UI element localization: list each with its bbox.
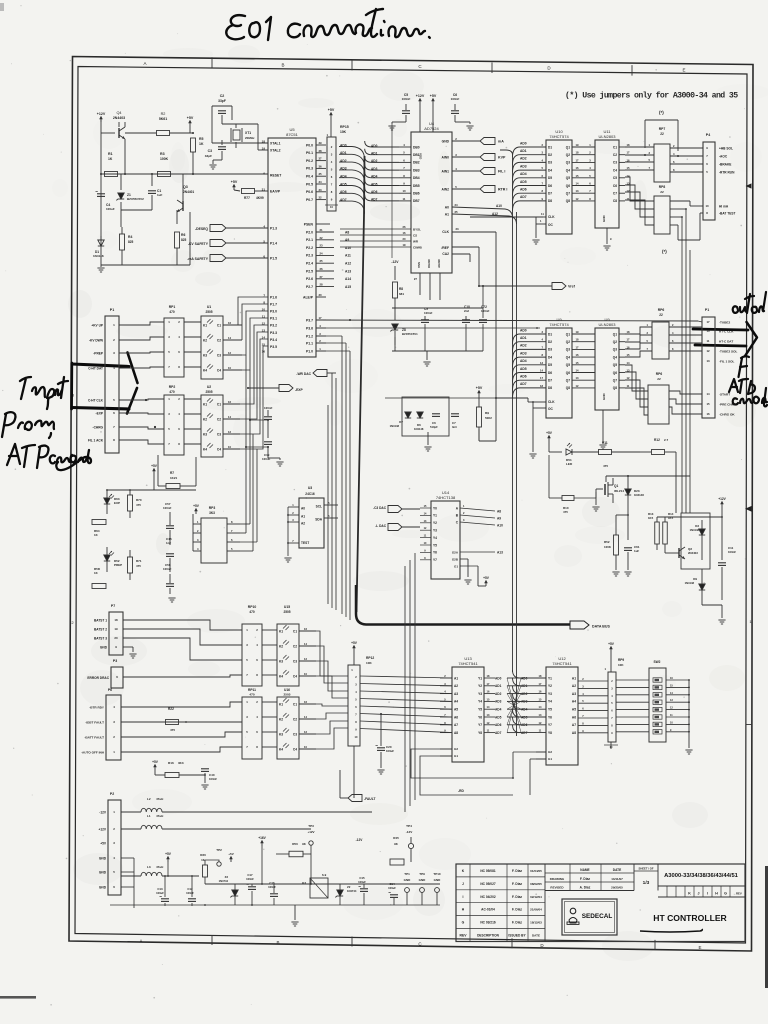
sheet outer border frame (69, 57, 753, 952)
svg-text:A7: A7 (572, 723, 576, 727)
svg-text:-START: -START (719, 392, 730, 396)
svg-text:RP11: RP11 (248, 688, 256, 692)
signal flag -KV SAFETY (210, 240, 226, 247)
svg-text:-L DAC: -L DAC (375, 524, 386, 528)
svg-text:47uH: 47uH (156, 865, 163, 869)
ground oscillator (213, 159, 222, 161)
svg-text:K1: K1 (203, 323, 207, 327)
svg-text:P3.7: P3.7 (306, 318, 313, 322)
title block outer (456, 864, 745, 942)
svg-text:P2.4: P2.4 (306, 262, 313, 266)
bus2 entry arcs into U12 (513, 670, 547, 678)
svg-text:+5V: +5V (151, 464, 158, 468)
svg-text:22: 22 (659, 313, 663, 317)
svg-text:R11: R11 (602, 441, 608, 445)
title block drawing table (545, 872, 634, 874)
svg-text:A12: A12 (492, 212, 498, 216)
svg-text:BZX55C5V2: BZX55C5V2 (127, 197, 144, 201)
svg-text:-BRAKE: -BRAKE (719, 162, 731, 166)
svg-text:100nF: 100nF (163, 567, 172, 571)
svg-text:VDD: VDD (419, 153, 423, 160)
op-amp U4 AD7524 DAC (411, 132, 452, 273)
scan artifact bottom left dash (0, 996, 36, 999)
svg-text:17: 17 (576, 345, 579, 349)
diode D52 PREP LED (104, 555, 110, 561)
svg-text:100uF: 100uF (388, 886, 396, 890)
svg-text:1N4148: 1N4148 (690, 528, 700, 532)
svg-text:+5V: +5V (100, 841, 107, 845)
svg-text:P2.7: P2.7 (306, 285, 313, 289)
svg-text:Q6: Q6 (566, 371, 570, 375)
svg-text:11: 11 (403, 197, 406, 201)
svg-text:A: A (139, 938, 142, 943)
svg-text:C17: C17 (247, 873, 253, 877)
signal flag KVP (480, 154, 495, 161)
svg-text:P2: P2 (110, 792, 114, 796)
svg-text:C1: C1 (613, 145, 617, 149)
ground C40 (201, 784, 208, 786)
svg-text:A1: A1 (301, 514, 305, 518)
svg-text:12: 12 (576, 384, 579, 388)
svg-text:74HCT574: 74HCT574 (549, 134, 569, 139)
svg-text:-CHRG OK: -CHRG OK (719, 412, 735, 416)
diode D23 1N4148 (625, 489, 631, 495)
capacitor C20 100uF (377, 747, 385, 749)
wires RD loop under U13 (411, 749, 513, 778)
wire long verticals center-low (404, 566, 406, 812)
wire U10 CLK horizontal (470, 216, 543, 218)
svg-text:08/02/05: 08/02/05 (530, 882, 542, 886)
svg-text:+16V: +16V (258, 836, 266, 840)
wire +12V rail vertical (100, 118, 102, 265)
svg-text:+12V: +12V (718, 497, 726, 501)
svg-text:+5V: +5V (228, 852, 233, 856)
svg-text:DB0: DB0 (413, 145, 420, 149)
svg-text:G: G (724, 891, 727, 895)
svg-text:A: A (143, 61, 146, 66)
svg-text:AD4: AD4 (371, 175, 378, 179)
svg-text:21/06/04: 21/06/04 (530, 908, 542, 912)
svg-text:P0.3: P0.3 (306, 167, 313, 171)
svg-text:C6: C6 (432, 421, 436, 425)
svg-text:R4: R4 (128, 235, 132, 239)
svg-text:Y3: Y3 (433, 529, 437, 533)
component box Q2 D3 (681, 513, 710, 569)
svg-text:A8: A8 (572, 731, 576, 735)
svg-text:D3: D3 (548, 348, 552, 352)
svg-text:EA/VP: EA/VP (270, 189, 281, 193)
svg-text:AD4: AD4 (520, 359, 527, 363)
svg-text:74HCT138: 74HCT138 (436, 495, 456, 500)
svg-text:D7: D7 (548, 379, 552, 383)
wire P3.6 to latch area (316, 327, 540, 329)
svg-text:681: 681 (399, 292, 404, 296)
svg-text:PSEN: PSEN (304, 222, 314, 226)
svg-text:D5: D5 (548, 176, 552, 180)
bus2 entry arcs into U9 (513, 334, 547, 344)
svg-text:P1.2: P1.2 (306, 334, 313, 338)
svg-text:74HCT574: 74HCT574 (549, 322, 569, 327)
svg-text:15: 15 (576, 174, 579, 178)
svg-text:A2: A2 (572, 684, 576, 688)
resistor pack RP12 10K (353, 647, 355, 651)
svg-text:TP10: TP10 (433, 872, 441, 876)
svg-text:-AOC: -AOC (719, 154, 728, 158)
svg-text:26: 26 (319, 267, 323, 271)
svg-text:13: 13 (540, 361, 543, 365)
svg-text:+5V: +5V (187, 116, 194, 120)
svg-text:17: 17 (627, 151, 630, 155)
svg-text:U5: U5 (289, 127, 295, 132)
svg-text:P3.4: P3.4 (270, 338, 277, 342)
svg-text:(*) Use jumpers only for A3000: (*) Use jumpers only for A3000-34 and 35 (565, 91, 738, 101)
svg-text:100nF: 100nF (728, 550, 736, 554)
svg-text:50K2: 50K2 (485, 416, 492, 420)
svg-text:DB3: DB3 (413, 168, 420, 172)
op-amp U12 74HCT541 buffer (546, 667, 578, 765)
svg-text:P1.1: P1.1 (306, 341, 313, 345)
svg-text:R1: R1 (108, 152, 113, 156)
svg-text:18: 18 (627, 143, 630, 147)
diode D7 1N4148 (405, 412, 411, 418)
svg-text:C3: C3 (208, 149, 212, 153)
ground R52 C61 (612, 571, 619, 573)
svg-text:3K3: 3K3 (209, 511, 215, 515)
svg-text:13: 13 (576, 189, 579, 193)
svg-text:22: 22 (660, 190, 664, 194)
svg-text:U2: U2 (207, 385, 211, 389)
svg-text:NAME: NAME (580, 868, 589, 872)
wire vertical interconnect mid page (341, 336, 343, 614)
svg-text:AD0: AD0 (371, 144, 378, 148)
svg-text:AD5: AD5 (495, 715, 502, 719)
svg-text:TP1: TP1 (404, 872, 410, 876)
svg-text:1N4744: 1N4744 (347, 889, 357, 893)
op-amp U9 74HCT574 latch (546, 328, 572, 418)
border row marker arrow right (746, 183, 752, 188)
svg-text:3n3: 3n3 (452, 425, 457, 429)
svg-text:470: 470 (249, 693, 254, 697)
svg-text:Y3: Y3 (548, 692, 552, 696)
svg-text:RP9: RP9 (618, 658, 624, 662)
svg-text:+12V: +12V (98, 827, 106, 831)
svg-text:475: 475 (603, 464, 608, 468)
svg-text:AD0: AD0 (520, 328, 527, 332)
svg-text:U10: U10 (555, 129, 563, 134)
svg-text:KVP: KVP (498, 156, 506, 160)
svg-text:-12V: -12V (391, 260, 399, 264)
wires U4 power (419, 104, 421, 132)
svg-text:AD7524: AD7524 (424, 126, 439, 131)
svg-text:16: 16 (228, 321, 231, 325)
svg-text:15: 15 (576, 361, 579, 365)
svg-text:P3.0: P3.0 (270, 310, 277, 314)
svg-text:DATE: DATE (613, 868, 621, 872)
svg-text:33: 33 (318, 188, 322, 192)
svg-text:C-HT CLK: C-HT CLK (88, 398, 104, 402)
svg-text:AD3: AD3 (520, 351, 527, 355)
svg-text:DATA BUS: DATA BUS (592, 625, 611, 629)
svg-text:BZX55C5V1: BZX55C5V1 (402, 332, 418, 336)
svg-text:H: H (715, 891, 718, 895)
svg-text:BATST 1: BATST 1 (94, 618, 107, 622)
svg-text:RP10: RP10 (248, 605, 257, 609)
wires SW2 to ground rail (666, 679, 689, 681)
power +12V Q2 area (721, 503, 723, 507)
svg-text:Y6: Y6 (433, 551, 437, 555)
svg-text:U3: U3 (308, 486, 312, 490)
svg-text:+5V: +5V (152, 760, 159, 764)
op-amp U13 74HCT541 buffer (452, 667, 484, 762)
svg-text:K4: K4 (279, 674, 283, 678)
svg-text:Y1: Y1 (433, 514, 437, 518)
svg-text:12: 12 (576, 197, 579, 201)
wire rail y884 (205, 883, 440, 885)
diode network box (402, 397, 449, 436)
svg-text:17: 17 (540, 376, 543, 380)
svg-text:AIN1: AIN1 (441, 169, 449, 173)
ground SW2 (685, 749, 692, 751)
svg-text:1N4148: 1N4148 (634, 493, 644, 497)
svg-text:A10: A10 (345, 246, 351, 250)
svg-text:R8: R8 (399, 287, 403, 291)
svg-text:J: J (698, 891, 700, 895)
svg-text:Q4: Q4 (116, 111, 121, 115)
svg-text:AGND: AGND (437, 258, 441, 268)
wires U9b lower to RP6b (625, 365, 648, 391)
ground caps U4 (392, 121, 406, 123)
svg-text:-FIL 1 SOL: -FIL 1 SOL (719, 359, 735, 363)
svg-text:C5: C5 (613, 176, 617, 180)
svg-text:D5: D5 (548, 363, 552, 367)
svg-text:Y3: Y3 (478, 692, 482, 696)
svg-text:39: 39 (318, 141, 322, 145)
svg-text:C15: C15 (359, 876, 365, 880)
wires U9b to RP6 (625, 327, 652, 334)
svg-text:IRLZ14: IRLZ14 (614, 489, 624, 493)
svg-text:38: 38 (318, 149, 322, 153)
resistor R16 3K3 (154, 766, 156, 770)
svg-text:34: 34 (318, 180, 322, 184)
svg-text:14: 14 (228, 336, 231, 340)
wire long verticals right side (681, 217, 683, 513)
diode D1 1N4148 (98, 240, 104, 246)
svg-text:NC 04/202: NC 04/202 (480, 895, 495, 899)
power +5V L3 node (167, 858, 169, 862)
svg-text:-mA SAFETY: -mA SAFETY (187, 257, 209, 261)
svg-text:U1: U1 (207, 305, 211, 309)
svg-text:CLK: CLK (548, 215, 555, 219)
svg-text:DATE: DATE (532, 934, 540, 938)
svg-text:1N4148: 1N4148 (93, 254, 104, 258)
svg-text:HI mA: HI mA (719, 204, 729, 208)
svg-text:+5V: +5V (351, 641, 358, 645)
svg-text:Y8: Y8 (548, 731, 552, 735)
svg-text:Q5: Q5 (566, 363, 570, 367)
svg-text:BATST 3: BATST 3 (94, 636, 107, 640)
svg-text:VSS: VSS (417, 262, 421, 268)
resistor R64 1K (92, 520, 106, 525)
svg-text:R45: R45 (393, 836, 399, 840)
svg-text:Q1: Q1 (613, 332, 617, 336)
handwritten note Input from ATP console (2, 377, 91, 470)
svg-text:Q8: Q8 (613, 386, 617, 390)
svg-text:16: 16 (262, 350, 266, 354)
op-amp U14 74HCT138 decoder (431, 501, 460, 579)
svg-text:U16: U16 (284, 688, 290, 692)
svg-text:A11: A11 (345, 254, 351, 258)
svg-text:SCL: SCL (316, 504, 322, 508)
svg-text:GND: GND (100, 645, 108, 649)
svg-text:33pF: 33pF (205, 154, 212, 158)
svg-text:Y2: Y2 (478, 684, 482, 688)
signal flag Vref (552, 283, 566, 290)
svg-text:P0.0: P0.0 (306, 143, 313, 147)
svg-text:GND: GND (419, 878, 427, 882)
zener Z8 BZX55C5V1 (392, 324, 398, 330)
svg-text:Y7: Y7 (433, 558, 437, 562)
svg-text:-AUTO OFF INH: -AUTO OFF INH (81, 750, 105, 754)
svg-text:C8: C8 (613, 199, 617, 203)
svg-text:XTAL1: XTAL1 (270, 141, 281, 145)
svg-text:Q4: Q4 (613, 355, 617, 359)
svg-text:17: 17 (318, 316, 322, 320)
svg-text:R5: R5 (199, 137, 204, 141)
svg-text:P3.2: P3.2 (270, 324, 277, 328)
svg-text:-PRE CHRG: -PRE CHRG (719, 402, 737, 406)
title block sedecal logo (562, 899, 617, 935)
svg-text:16: 16 (304, 700, 307, 704)
svg-text:10: 10 (705, 204, 709, 208)
svg-text:Y7: Y7 (548, 723, 552, 727)
svg-text:2.7: 2.7 (664, 438, 669, 442)
svg-text:P0.6: P0.6 (306, 190, 313, 194)
svg-text:A9: A9 (497, 517, 501, 521)
svg-text:Q2: Q2 (566, 340, 570, 344)
svg-text:P0.1: P0.1 (306, 151, 313, 155)
svg-text:16: 16 (228, 400, 231, 404)
svg-text:AD6: AD6 (520, 375, 527, 379)
svg-text:SHEET / OF: SHEET / OF (639, 867, 654, 871)
wires U11 to RP7 (625, 146, 654, 148)
svg-text:P7: P7 (111, 604, 115, 608)
svg-text:F. Diaz: F. Diaz (512, 869, 522, 873)
svg-text:A2: A2 (454, 684, 458, 688)
svg-text:P1.4: P1.4 (270, 241, 277, 245)
svg-text:K2: K2 (203, 338, 207, 342)
svg-text:2505: 2505 (205, 390, 212, 394)
svg-text:16: 16 (576, 166, 579, 170)
svg-text:14: 14 (627, 361, 630, 365)
resistor R9 50K2 (478, 392, 480, 396)
power +5V U4 (432, 100, 434, 104)
svg-text:EXP: EXP (114, 501, 120, 505)
svg-text:17: 17 (627, 338, 630, 342)
svg-text:C7: C7 (452, 421, 456, 425)
power +5V near R5 (189, 122, 191, 126)
svg-text:K3: K3 (279, 732, 283, 736)
svg-text:-TUBE2: -TUBE2 (719, 320, 730, 324)
resistor R71 475 (128, 557, 133, 573)
wires oscillator to xtal pins (211, 106, 213, 143)
wire P3 to RP10 (123, 675, 242, 677)
svg-text:23: 23 (319, 244, 323, 248)
op-amp U11 ULN2803 driver (595, 140, 619, 228)
svg-text:D6: D6 (417, 423, 421, 427)
svg-text:P6: P6 (108, 688, 112, 692)
wire +16V node (261, 842, 263, 846)
svg-text:XTAL2: XTAL2 (270, 148, 281, 152)
svg-text:C14: C14 (389, 882, 395, 886)
svg-text:ISSUED BY: ISSUED BY (508, 934, 526, 938)
wires RP6b outputs to P2 (669, 391, 702, 394)
svg-text:25: 25 (454, 210, 458, 214)
svg-text:16: 16 (304, 627, 307, 631)
svg-text:GND: GND (99, 856, 107, 860)
svg-text:DB7: DB7 (413, 199, 420, 203)
svg-text:TP2: TP2 (216, 848, 222, 852)
svg-text:17: 17 (706, 320, 710, 324)
svg-text:L1: L1 (147, 814, 151, 818)
svg-text:-DESEQ: -DESEQ (195, 227, 208, 231)
svg-text:D8: D8 (548, 386, 552, 390)
svg-text:Y4: Y4 (478, 700, 482, 704)
svg-text:11: 11 (707, 339, 710, 343)
svg-text:AD7: AD7 (520, 195, 527, 199)
svg-text:B: B (281, 63, 284, 68)
op-amp U9b ULN2803 driver (595, 328, 619, 410)
svg-text:NC 03/216: NC 03/216 (480, 921, 495, 925)
svg-text:HT-C DAT: HT-C DAT (719, 339, 733, 343)
svg-text:1N4148: 1N4148 (390, 424, 400, 428)
svg-text:1/3: 1/3 (643, 880, 650, 886)
svg-text:-KV DWN: -KV DWN (89, 338, 104, 342)
svg-text:13: 13 (706, 359, 710, 363)
svg-text:Q3: Q3 (566, 348, 570, 352)
wire long horizontal to U9 clk (385, 397, 496, 399)
svg-text:P1.6: P1.6 (270, 295, 277, 299)
svg-text:P1.5: P1.5 (270, 256, 277, 260)
svg-text:19: 19 (576, 143, 579, 147)
svg-text:K3: K3 (302, 881, 306, 885)
svg-text:Vref: Vref (568, 285, 576, 289)
wires P7 to RP10 (123, 620, 242, 630)
svg-text:47uH: 47uH (156, 814, 163, 818)
svg-text:2505: 2505 (283, 610, 290, 614)
svg-text:510pF: 510pF (430, 425, 438, 429)
ground C20 (377, 769, 384, 771)
svg-text:Y1: Y1 (548, 676, 552, 680)
ground vref filter (426, 351, 428, 360)
svg-text:C2: C2 (220, 94, 225, 98)
svg-text:D4: D4 (548, 355, 552, 359)
svg-text:-12V: -12V (406, 830, 413, 834)
U13 left stubs (440, 677, 452, 679)
svg-text:100uF: 100uF (358, 880, 366, 884)
svg-text:A8: A8 (497, 510, 501, 514)
svg-text:I: I (463, 895, 464, 899)
svg-text:21: 21 (319, 228, 323, 232)
svg-text:C-HT DAT: C-HT DAT (88, 366, 103, 370)
svg-text:29/25/05: 29/25/05 (611, 886, 623, 890)
handwritten note output for ATP console right (693, 292, 767, 406)
signal flag mA (480, 138, 495, 145)
svg-text:U9: U9 (556, 317, 562, 322)
signal flag DATA BUS (570, 621, 589, 629)
svg-text:+KV UP: +KV UP (91, 323, 103, 327)
wire left rail U4 (391, 124, 393, 258)
svg-text:AIN2: AIN2 (441, 187, 449, 191)
